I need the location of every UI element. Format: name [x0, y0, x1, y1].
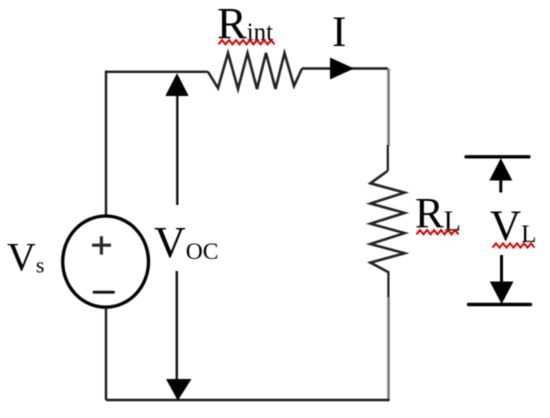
wire left upper: [105, 71, 107, 217]
wire right upper: [387, 69, 390, 147]
V_L top bar: [466, 155, 529, 158]
squiggle under R_int: [219, 40, 275, 44]
V_L down arrow: [500, 255, 503, 282]
wire stub below R_L: [387, 272, 389, 298]
V_OC arrow lower line: [176, 271, 178, 380]
V_L up arrow: [489, 158, 512, 180]
minus sign: [94, 291, 114, 294]
wire top-left segment: [106, 71, 208, 73]
V_OC arrow upper line: [176, 93, 178, 205]
V_OC arrow down head: [166, 379, 192, 401]
wire bottom: [106, 399, 390, 402]
svg-text:I: I: [332, 9, 346, 56]
squiggle under V_L: [493, 243, 535, 247]
svg-text:Vs: Vs: [7, 235, 44, 280]
squiggle under R_L: [417, 230, 459, 234]
wire left lower: [105, 307, 107, 400]
wire stub above R_L: [387, 145, 389, 171]
V_L bottom bar: [469, 303, 531, 306]
wire right lower: [387, 297, 390, 400]
current arrow I head: [330, 58, 354, 80]
source V_s circle: [63, 216, 149, 307]
wire top-right segment: [302, 67, 388, 69]
svg-text:VOC: VOC: [154, 218, 218, 267]
resistor R_L: [370, 171, 404, 273]
resistor R_int: [208, 53, 302, 89]
V_OC arrow up head: [165, 73, 188, 96]
plus sign: [92, 236, 111, 254]
svg-text:VL: VL: [490, 203, 536, 250]
